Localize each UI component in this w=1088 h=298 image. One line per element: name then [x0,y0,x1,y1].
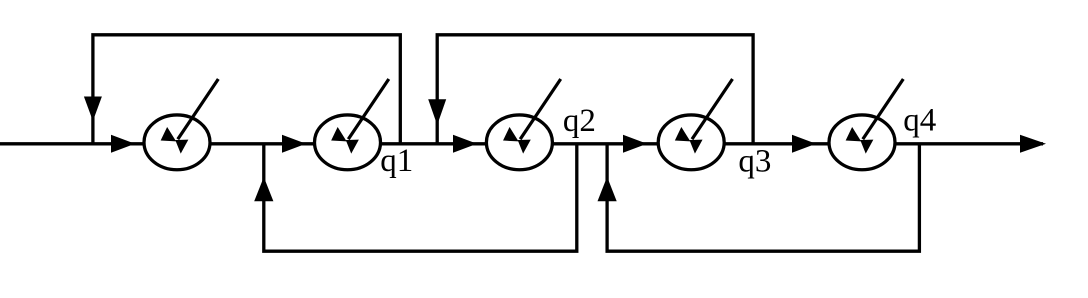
wire: output line from stage 5 [895,142,1043,145]
wire: top feedback loop 2 [437,35,753,144]
wire: stage1 to stage2 [210,142,316,145]
arrowhead A3 on main line [453,135,477,153]
arrowhead A6 output [1020,135,1046,153]
svg-text:q1: q1 [380,143,413,179]
arrowhead A10 up on bottom loop 2 [598,177,617,201]
arrowhead A5 on main line [792,135,816,153]
stage element D2 (circle with arrow) [315,79,389,170]
arrowhead A4 on main line [623,135,647,153]
stage element D3 (circle with arrow) [486,79,560,170]
arrowhead A1 on main line [111,135,135,153]
wire: input line into stage 1 [0,142,146,145]
stage element D4 (circle with arrow) [658,79,732,170]
wire: stage3 to stage4 [552,142,660,145]
arrowhead A9 up on bottom loop 1 [254,177,273,201]
arrowhead A8 down on top loop 2 [428,99,446,125]
stage element D5 (circle with arrow) [829,79,903,170]
wire: stage4 to stage5 [724,142,830,145]
wire: top feedback loop 1 [93,35,400,144]
svg-text:q3: q3 [738,143,771,179]
stage element D1 (circle with arrow) [144,79,218,170]
svg-text:q4: q4 [903,103,936,139]
wire: bottom feedback loop 1 [264,144,577,251]
svg-text:q2: q2 [563,103,596,139]
wire: bottom feedback loop 2 [607,144,919,251]
arrowhead A2 on main line [282,135,306,153]
wire: stage2 to stage3 [380,142,488,145]
arrowhead A7 down on top loop 1 [84,97,102,122]
